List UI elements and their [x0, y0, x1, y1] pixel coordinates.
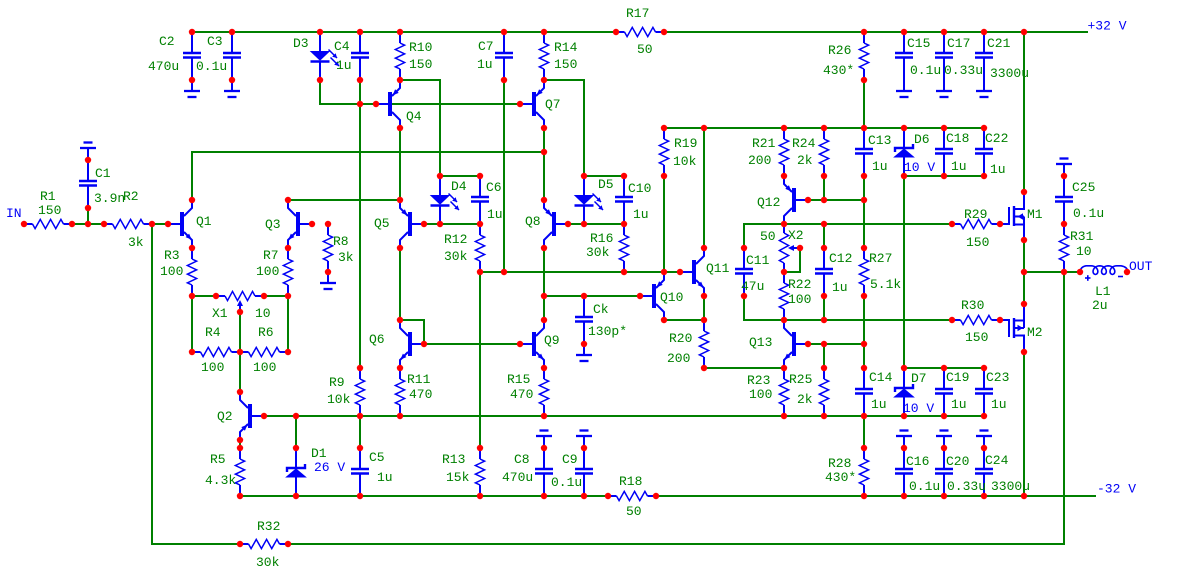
label R30 [961, 298, 984, 313]
value C9 [551, 475, 582, 490]
label R21 [752, 136, 776, 151]
wire Q4 collector down [399, 128, 401, 200]
svg-text:10 V: 10 V [903, 401, 934, 416]
junction at 864,248 [861, 245, 867, 251]
junction at 584,448 [581, 445, 587, 451]
junction at 544,416 [541, 413, 547, 419]
value D6 [904, 160, 935, 175]
junction at 320,32 [317, 29, 323, 35]
junction at 1024,272 [1021, 269, 1027, 275]
resistor R12 [475, 224, 484, 272]
svg-text:IN: IN [6, 206, 22, 221]
svg-text:R16: R16 [590, 231, 613, 246]
svg-text:150: 150 [965, 330, 988, 345]
junction at 984,32 [981, 29, 987, 35]
junction at 1000,224 [997, 221, 1003, 227]
junction at 504,80 [501, 77, 507, 83]
svg-text:R17: R17 [626, 6, 649, 21]
wire Q8 base line [568, 223, 624, 225]
svg-text:R3: R3 [164, 248, 180, 263]
svg-text:D3: D3 [293, 36, 309, 51]
junction at 808,200 [805, 197, 811, 203]
value R10 [409, 57, 432, 72]
label C12 [829, 251, 852, 266]
ground [184, 80, 200, 97]
label X1 [212, 306, 228, 321]
wire R25 lead [823, 344, 825, 368]
svg-text:C23: C23 [986, 370, 1009, 385]
svg-text:R11: R11 [407, 372, 431, 387]
junction at 984,176 [981, 173, 987, 179]
label C7 [478, 39, 494, 54]
svg-text:100: 100 [788, 292, 811, 307]
capacitor C15 [895, 32, 913, 80]
junction at 1024,352 [1021, 349, 1027, 355]
resistor R22 [779, 272, 788, 320]
wire X1 wiper down [239, 312, 241, 392]
wire feedback left/down [152, 224, 240, 544]
junction at 656,496 [653, 493, 659, 499]
svg-text:C6: C6 [486, 180, 502, 195]
junction at 440,176 [437, 173, 443, 179]
label Q10 [660, 290, 683, 305]
junction at 1000,320 [997, 317, 1003, 323]
label C22 [985, 131, 1008, 146]
junction at 864,368 [861, 365, 867, 371]
junction at 544,32 [541, 29, 547, 35]
value R28 [825, 470, 856, 485]
svg-text:1u: 1u [951, 397, 967, 412]
svg-text:M2: M2 [1027, 325, 1043, 340]
junction at 784,416 [781, 413, 787, 419]
resistor R9 [355, 368, 364, 416]
junction at 1024,496 [1021, 493, 1027, 499]
wire Q6-Q9 base line [424, 343, 520, 345]
wire C13 down [863, 176, 865, 200]
wire bias rail [664, 127, 984, 129]
junction at 824,416 [821, 413, 827, 419]
wire output to L1 [1024, 271, 1080, 273]
junction at 664,128 [661, 125, 667, 131]
svg-text:5.1k: 5.1k [870, 277, 901, 292]
junction at 944,416 [941, 413, 947, 419]
label X2 [788, 228, 804, 243]
label Q1 [196, 214, 212, 229]
junction at 664,32 [661, 29, 667, 35]
svg-text:Q6: Q6 [369, 332, 385, 347]
label R6 [258, 325, 274, 340]
resistor R21 [779, 128, 788, 176]
wire node to R27 [863, 200, 865, 248]
svg-text:R20: R20 [669, 331, 692, 346]
svg-text:D6: D6 [914, 132, 930, 147]
junction at 480,496 [477, 493, 483, 499]
value R16 [586, 245, 610, 260]
junction at 824,248 [821, 245, 827, 251]
svg-text:C19: C19 [946, 370, 969, 385]
svg-text:C13: C13 [868, 133, 891, 148]
junction at 864,32 [861, 29, 867, 35]
trimpot X1 [216, 291, 264, 312]
value C21 [990, 66, 1029, 81]
svg-text:430*: 430* [823, 63, 854, 78]
capacitor C1 [79, 160, 97, 208]
capacitor C12 [815, 248, 833, 296]
junction at 624,176 [621, 173, 627, 179]
svg-text:1u: 1u [336, 58, 352, 73]
junction at 904,416 [901, 413, 907, 419]
label R3 [164, 248, 180, 263]
value R31 [1076, 244, 1092, 259]
svg-text:0.1u: 0.1u [909, 479, 940, 494]
value C20 [947, 479, 986, 494]
junction at 480,448 [477, 445, 483, 451]
svg-text:C2: C2 [159, 34, 175, 49]
svg-text:R24: R24 [792, 136, 816, 151]
wire Q10 collector line [664, 319, 704, 321]
junction at 400,248 [397, 245, 403, 251]
junction at 328,224 [325, 221, 331, 227]
junction at 608,496 [605, 493, 611, 499]
svg-text:Ck: Ck [593, 302, 609, 317]
junction at 744,296 [741, 293, 747, 299]
svg-text:D1: D1 [311, 446, 327, 461]
svg-text:150: 150 [966, 235, 989, 250]
junction at 784,176 [781, 173, 787, 179]
label R22 [788, 277, 811, 292]
label C6 [486, 180, 502, 195]
label Q8 [525, 214, 541, 229]
capacitor C7 [495, 32, 513, 80]
label C15 [907, 36, 930, 51]
junction at 264,296 [261, 293, 267, 299]
junction at 312,224 [309, 221, 315, 227]
junction at 864,496 [861, 493, 867, 499]
label Q11 [706, 261, 730, 276]
junction at 504,272 [501, 269, 507, 275]
svg-text:1u: 1u [871, 397, 887, 412]
label C25 [1072, 180, 1095, 195]
transistor Q11 [680, 248, 704, 296]
junction at 984,496 [981, 493, 987, 499]
junction at 400,80 [397, 77, 403, 83]
junction at 624,272 [621, 269, 627, 275]
svg-text:R32: R32 [257, 519, 280, 534]
label C20 [946, 454, 969, 469]
junction at 784,368 [781, 365, 787, 371]
junction at 864,80 [861, 77, 867, 83]
junction at 864,200 [861, 197, 867, 203]
svg-text:X1: X1 [212, 306, 228, 321]
ground [224, 80, 240, 97]
junction at 984,448 [981, 445, 987, 451]
junction at 360,104 [357, 101, 363, 107]
junction at 1024,240 [1021, 237, 1027, 243]
transistor Q7 [520, 80, 544, 128]
label R1 [40, 189, 56, 204]
svg-text:1u: 1u [487, 207, 503, 222]
wire Q11 emitter to R20 [703, 296, 705, 320]
svg-text:1u: 1u [377, 470, 393, 485]
label C9 [562, 452, 578, 467]
capacitor C21 [975, 32, 993, 80]
value C4 [336, 58, 352, 73]
svg-text:C17: C17 [947, 36, 970, 51]
svg-text:0.33u: 0.33u [947, 479, 986, 494]
ground [976, 80, 992, 97]
svg-text:R10: R10 [409, 40, 432, 55]
junction at 232,32 [229, 29, 235, 35]
label M1 [1027, 207, 1043, 222]
resistor R32 [240, 539, 288, 548]
resistor R8 [323, 224, 332, 272]
junction at 824,368 [821, 365, 827, 371]
ground [896, 431, 912, 449]
resistor R26 [859, 32, 868, 80]
label R29 [964, 207, 987, 222]
ground [936, 80, 952, 97]
LED D3 [311, 32, 340, 80]
wire R19 down [663, 176, 665, 272]
svg-text:R4: R4 [205, 325, 221, 340]
svg-text:2k: 2k [797, 392, 813, 407]
value R17 [637, 42, 653, 57]
wire C7 column [503, 80, 505, 272]
junction at 240,448 [237, 445, 243, 451]
svg-text:0.33u: 0.33u [944, 63, 983, 78]
junction at 104,224 [101, 221, 107, 227]
svg-text:0.1u: 0.1u [1073, 206, 1104, 221]
label C10 [628, 181, 651, 196]
label R2 [123, 189, 139, 204]
junction at 944,32 [941, 29, 947, 35]
junction at 664,176 [661, 173, 667, 179]
value C24 [991, 479, 1030, 494]
capacitor C20 [935, 448, 953, 496]
svg-text:30k: 30k [256, 555, 280, 570]
junction at 704,128 [701, 125, 707, 131]
value R19 [673, 154, 697, 169]
junction at 400,32 [397, 29, 403, 35]
label C23 [986, 370, 1009, 385]
junction at 784,128 [781, 125, 787, 131]
capacitor C22 [975, 128, 993, 176]
capacitor C4 [351, 32, 369, 80]
wire X1 right to R7/R6 [264, 296, 288, 352]
wire Q6 base tie [400, 320, 424, 344]
value R23 [749, 387, 772, 402]
transistor Q9 [520, 320, 544, 368]
svg-text:3300u: 3300u [990, 66, 1029, 81]
resistor R23 [779, 368, 788, 416]
value C11 [741, 279, 764, 294]
junction at 240,352 [237, 349, 243, 355]
junction at 824,128 [821, 125, 827, 131]
wire Q2 emitter to R5 [239, 440, 241, 448]
resistor R15 [539, 368, 548, 416]
label R28 [828, 456, 851, 471]
junction at 288,544 [285, 541, 291, 547]
junction at 904,448 [901, 445, 907, 451]
junction at 984,368 [981, 365, 987, 371]
zener diode D6 [895, 128, 914, 176]
value R25 [797, 392, 813, 407]
svg-text:Q10: Q10 [660, 290, 683, 305]
svg-text:470u: 470u [502, 470, 533, 485]
label C16 [906, 454, 929, 469]
resistor R18 [608, 491, 656, 500]
trimpot X2 [779, 224, 800, 272]
svg-text:100: 100 [749, 387, 772, 402]
label R14 [554, 40, 578, 55]
junction at 744,248 [741, 245, 747, 251]
svg-text:30k: 30k [444, 249, 468, 264]
value R27 [870, 277, 901, 292]
svg-text:R31: R31 [1070, 229, 1094, 244]
svg-text:C1: C1 [95, 166, 111, 181]
junction at 288,352 [285, 349, 291, 355]
junction at 584,296 [581, 293, 587, 299]
svg-text:Q11: Q11 [706, 261, 730, 276]
wire feedback bottom/up [288, 272, 1064, 544]
value R14 [554, 57, 577, 72]
svg-text:10: 10 [1076, 244, 1092, 259]
label R4 [205, 325, 221, 340]
svg-text:1u: 1u [477, 57, 493, 72]
junction at 400,200 [397, 197, 403, 203]
label R26 [828, 43, 851, 58]
junction at 544,448 [541, 445, 547, 451]
wire input node [72, 223, 104, 225]
label C21 [987, 36, 1011, 51]
svg-text:-32 V: -32 V [1097, 482, 1136, 497]
resistor R27 [859, 248, 868, 296]
svg-text:100: 100 [160, 264, 183, 279]
svg-text:R30: R30 [961, 298, 984, 313]
junction at 192,80 [189, 77, 195, 83]
label Q2 [217, 409, 233, 424]
junction at 824,296 [821, 293, 827, 299]
transistor Q12 [784, 176, 808, 224]
ground [576, 431, 592, 449]
junction at 72,224 [69, 221, 75, 227]
svg-text:+32 V: +32 V [1088, 19, 1127, 34]
wire X2 wiper tie [784, 248, 800, 272]
svg-text:4.3k: 4.3k [205, 473, 236, 488]
svg-text:3300u: 3300u [991, 479, 1030, 494]
svg-text:C3: C3 [207, 34, 223, 49]
value C13 [872, 159, 888, 174]
label C17 [947, 36, 970, 51]
junction at 664,272 [661, 269, 667, 275]
wire D3 to Q4 base [320, 80, 520, 104]
capacitor C18 [935, 128, 953, 176]
label C18 [946, 131, 969, 146]
junction at 504,32 [501, 29, 507, 35]
junction at 400,128 [397, 125, 403, 131]
svg-text:3k: 3k [128, 235, 144, 250]
wire C1 to input [87, 208, 89, 224]
label Q5 [374, 216, 390, 231]
junction at 864,296 [861, 293, 867, 299]
label Q12 [757, 195, 780, 210]
label C8 [514, 452, 530, 467]
wire node to C14 [863, 344, 865, 368]
wire -32V rail right [656, 495, 1096, 497]
label C4 [334, 39, 350, 54]
label R32 [257, 519, 280, 534]
junction at 824,200 [821, 197, 827, 203]
capacitor Ck [575, 296, 593, 344]
label Q7 [545, 97, 561, 112]
svg-text:R26: R26 [828, 43, 851, 58]
value C18 [951, 159, 967, 174]
svg-text:Q9: Q9 [544, 333, 560, 348]
capacitor C24 [975, 448, 993, 496]
resistor R4 [192, 347, 240, 356]
junction at 360,416 [357, 413, 363, 419]
transistor Q5 [400, 200, 424, 248]
junction at 944,176 [941, 173, 947, 179]
junction at 240,312 [237, 309, 243, 315]
capacitor C16 [895, 448, 913, 496]
svg-text:C22: C22 [985, 131, 1008, 146]
junction at 400,320 [397, 317, 403, 323]
label R16 [590, 231, 613, 246]
label D5 [598, 177, 614, 192]
junction at 864,416 [861, 413, 867, 419]
svg-text:R6: R6 [258, 325, 274, 340]
value C19 [951, 397, 967, 412]
value R32 [256, 555, 280, 570]
LED D5 [575, 176, 604, 224]
svg-text:Q7: Q7 [545, 97, 561, 112]
MOSFET M2 [1000, 304, 1024, 352]
resistor R7 [283, 248, 292, 296]
value Ck [588, 324, 627, 339]
svg-text:10: 10 [255, 306, 271, 321]
value C12 [832, 280, 848, 295]
junction at 360,496 [357, 493, 363, 499]
label L1 [1095, 284, 1111, 299]
label R23 [747, 373, 770, 388]
label C14 [869, 370, 893, 385]
wire node to Q1 base [152, 223, 168, 225]
svg-text:Q2: Q2 [217, 409, 233, 424]
svg-text:47u: 47u [741, 279, 764, 294]
svg-text:200: 200 [748, 153, 771, 168]
svg-text:Q4: Q4 [406, 109, 422, 124]
label R24 [792, 136, 816, 151]
svg-text:3k: 3k [338, 250, 354, 265]
value R24 [797, 153, 813, 168]
svg-text:R29: R29 [964, 207, 987, 222]
junction at 400,368 [397, 365, 403, 371]
wire bias row to C5 [359, 416, 361, 448]
value R9 [327, 392, 351, 407]
svg-text:100: 100 [201, 360, 224, 375]
svg-text:R18: R18 [619, 474, 642, 489]
wire Q13 base line [808, 343, 864, 345]
label D4 [451, 179, 467, 194]
wire C11 to lower drive line [744, 296, 952, 320]
transistor Q13 [784, 320, 808, 368]
svg-text:1u: 1u [991, 397, 1007, 412]
wire R26 to bias rail [863, 80, 865, 128]
label R8 [333, 234, 349, 249]
label C11 [746, 253, 770, 268]
svg-text:C18: C18 [946, 131, 969, 146]
